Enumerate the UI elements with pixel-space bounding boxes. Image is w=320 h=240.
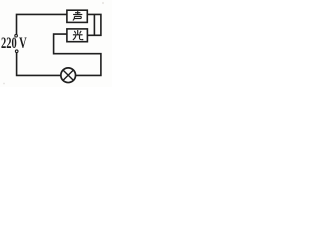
box 光 (light) — [67, 29, 88, 42]
wire from lamp right to bottom-right corner, up, left, up, into box2 left side — [54, 34, 101, 75]
wire from upper terminal up and across the top to box1 — [17, 14, 67, 34]
terminal upper — [15, 34, 18, 37]
label 声 character strokes — [73, 11, 82, 20]
wire from box1 right side to right loop down to box2 right side — [87, 14, 101, 35]
label 光 character strokes — [73, 30, 83, 40]
wire inner vertical of right loop — [93, 14, 95, 35]
lamp L1 (circle with X) — [61, 68, 76, 83]
scan speckle bottom left — [3, 83, 5, 85]
scan speckle top right — [102, 2, 104, 4]
box 声 (sound) — [67, 10, 87, 22]
terminal lower — [15, 50, 18, 53]
wire from lower terminal down, along bottom to lamp — [17, 53, 61, 76]
label 220 V — [1, 35, 27, 53]
